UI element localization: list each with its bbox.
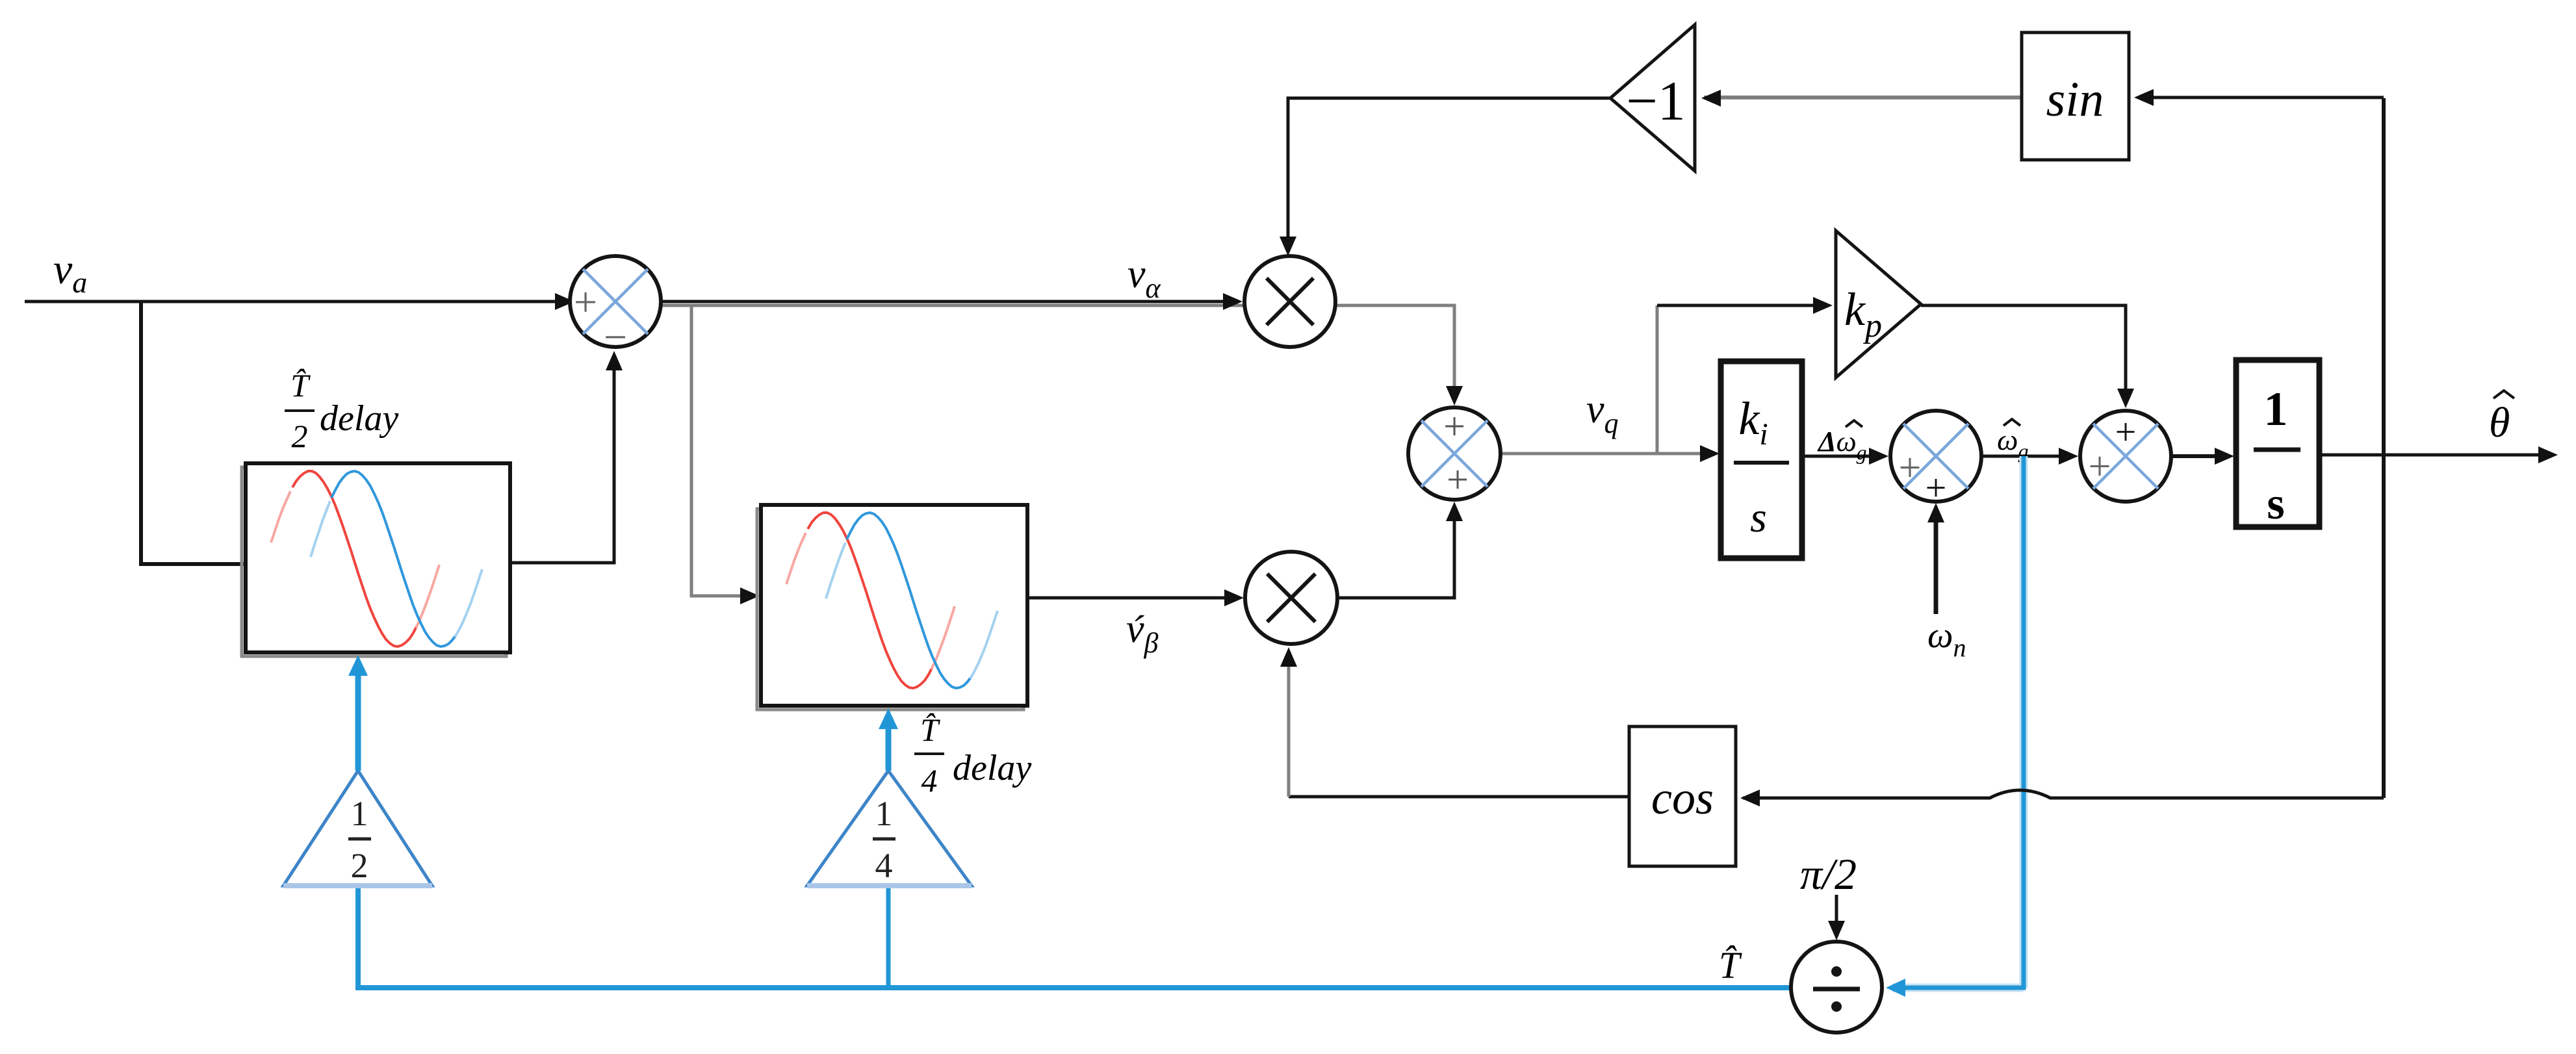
wire multiplier M2 output up into sum S2 bottom [1337,508,1454,598]
wire blue feedback from omega_g node down to divider [1892,456,2024,988]
wire -1 gain output down into multiplier M1 top [1288,98,1610,250]
svg-text:v́β: v́β [1126,607,1159,659]
wire thick blue arrow 1/4 output into T/4 box [886,728,892,771]
gain 1/2 triangle [283,771,432,886]
wire sum S1 output to multiplier M1 black [661,300,1236,303]
wire pi/2 input into divider top [1835,895,1838,934]
svg-text:+: + [1926,467,1947,509]
wire multiplier M1 output down into sum S2 top (arrowhead) [1446,386,1463,405]
block 1/s integrator [2236,360,2319,529]
block T/2 transport delay with sine plot [242,463,510,656]
wire kp gain output down into sum S4 top [1921,305,2126,402]
wire cos output up into multiplier M2 bottom [1289,795,1629,799]
label T/4 delay right of box [914,712,1031,799]
wire va main horizontal into sum S1 [25,300,567,303]
wire sum S4 output into 1/s box [2171,454,2229,458]
svg-text:−: − [604,314,627,360]
block ki/s integrator [1721,361,1802,558]
wire theta feedback vertical [2382,98,2386,798]
sum S3 (delta omega + omega_n) [1890,411,1981,509]
svg-text:+: + [1443,405,1465,448]
svg-text:1: 1 [2264,383,2288,436]
svg-text:T̂: T̂ [290,367,311,404]
multiplier M2 (vbeta x cos) [1245,552,1337,644]
svg-text:+: + [2089,444,2111,489]
svg-text:2: 2 [351,846,368,885]
divider circle [1791,942,1882,1033]
wire branch up to kp gain [1656,305,1659,454]
label T/2 delay above box [285,367,398,454]
wire T/4 delay output into multiplier M2 [1027,597,1237,600]
svg-text:+: + [2115,411,2137,453]
svg-text:va: va [53,246,87,299]
wire sum S3 output omega_g hat to sum S4 [1981,455,2073,458]
svg-text:π/2: π/2 [1800,849,1857,899]
wire feedback bottom to cos box with hop over blue line [1743,790,2384,798]
svg-text:Δωg: Δωg [1817,426,1867,464]
wire blue T hat bus from divider to gain triangles [358,887,1791,988]
wire T/2 delay output up into sum S1 minus input [510,357,614,563]
svg-text:s: s [1750,494,1767,541]
svg-text:delay: delay [320,398,398,439]
svg-text:+: + [1899,446,1922,490]
svg-text:ωn: ωn [1927,615,1966,662]
block sin [2022,32,2129,160]
svg-text:4: 4 [921,762,938,799]
svg-text:1: 1 [351,794,368,833]
wire branch down to T/4 delay box [691,305,754,596]
svg-text:cos: cos [1651,772,1714,824]
wire feedback top into sin box [2138,96,2384,99]
gain -1 triangle [1610,25,1695,171]
svg-text:θ: θ [2489,399,2510,446]
wire va branch down to T/2 delay box [141,302,246,564]
gain 1/4 triangle [807,771,972,886]
sum S2 (vq = sum of products) [1408,405,1501,501]
svg-text:vq: vq [1586,387,1619,439]
gain kp triangle [1836,231,1921,378]
sum S4 (kp + omega) [2080,411,2171,502]
wire ki/s output into sum S3 [1802,455,1882,458]
svg-text:+: + [1447,458,1469,501]
wire blue branch up to 1/4 triangle [886,887,891,988]
svg-text:s: s [2267,479,2284,529]
block T/4 transport delay with sine plot [757,505,1027,710]
svg-text:sin: sin [2046,72,2104,127]
svg-text:4: 4 [875,846,893,885]
svg-text:T̂: T̂ [920,712,940,748]
multiplier M1 (valpha x -sin) [1244,256,1335,347]
svg-text:vα: vα [1127,252,1161,304]
svg-text:T̂: T̂ [1719,944,1742,986]
svg-text:+: + [574,279,597,325]
svg-text:2: 2 [292,418,308,454]
wire omega_n input up into sum S3 bottom [1934,509,1938,614]
wire sum S1 output to multiplier M1 (valpha line, gray echo) [661,305,1454,399]
block cos [1629,726,1736,866]
svg-text:delay: delay [953,748,1031,788]
wire theta output line [2319,454,2550,457]
wire sin output into -1 gain [1704,96,2022,99]
svg-text:1: 1 [875,794,893,833]
wire sum S2 output vq into ki/s box [1501,452,1714,456]
wire thick blue arrow 1/2 output into T/2 box [355,675,361,771]
sum S1 (va - delayed) [570,256,661,360]
svg-text:−1: −1 [1626,70,1686,132]
